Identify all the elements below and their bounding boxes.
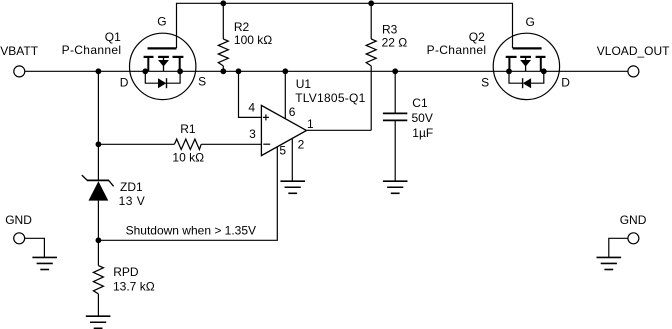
svg-text:50V: 50V	[412, 111, 433, 125]
svg-text:10 kΩ: 10 kΩ	[172, 150, 204, 164]
svg-text:13 V: 13 V	[119, 194, 146, 208]
svg-text:3: 3	[249, 127, 256, 141]
svg-text:1: 1	[307, 117, 314, 131]
svg-text:100 kΩ: 100 kΩ	[234, 33, 272, 47]
svg-text:P-Channel: P-Channel	[427, 43, 487, 57]
svg-text:D: D	[120, 76, 129, 90]
svg-text:4: 4	[248, 101, 255, 115]
svg-text:2: 2	[298, 138, 305, 152]
svg-text:S: S	[481, 76, 489, 90]
svg-text:R2: R2	[234, 20, 250, 34]
svg-text:22 Ω: 22 Ω	[382, 35, 408, 49]
svg-text:6: 6	[289, 105, 296, 119]
svg-text:RPD: RPD	[113, 265, 139, 279]
svg-text:GND: GND	[620, 213, 647, 227]
svg-text:C1: C1	[412, 96, 428, 110]
svg-text:S: S	[198, 74, 206, 88]
svg-text:GND: GND	[5, 213, 32, 227]
svg-text:G: G	[526, 15, 535, 29]
svg-text:R1: R1	[180, 122, 196, 136]
svg-text:1µF: 1µF	[412, 126, 433, 140]
svg-text:Shutdown when > 1.35V: Shutdown when > 1.35V	[126, 223, 256, 237]
svg-text:VLOAD_OUT: VLOAD_OUT	[597, 44, 670, 58]
svg-text:U1: U1	[296, 77, 312, 91]
svg-text:5: 5	[279, 144, 286, 158]
svg-text:Q2: Q2	[469, 30, 485, 44]
svg-text:13.7 kΩ: 13.7 kΩ	[113, 279, 155, 293]
svg-text:ZD1: ZD1	[120, 180, 143, 194]
svg-text:VBATT: VBATT	[0, 44, 38, 58]
svg-text:TLV1805-Q1: TLV1805-Q1	[295, 91, 365, 105]
svg-text:D: D	[561, 76, 570, 90]
svg-text:R3: R3	[382, 22, 398, 36]
svg-text:P-Channel: P-Channel	[62, 43, 122, 57]
svg-text:G: G	[157, 15, 166, 29]
